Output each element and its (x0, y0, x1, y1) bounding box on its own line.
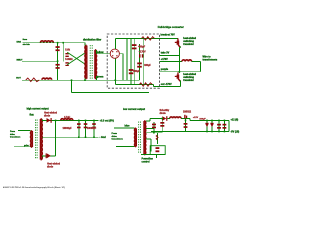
capacitor C4 (129, 69, 134, 74)
diode D1 (47, 118, 52, 123)
svg-text:break-at 70V: break-at 70V (161, 33, 176, 36)
capacitor C12 (223, 120, 227, 131)
svg-text:transistors: transistors (10, 135, 21, 138)
svg-text:5/8A: 5/8A (17, 41, 22, 44)
svg-text:Heat-sinked: Heat-sinked (44, 112, 58, 115)
svg-text:+12V: +12V (193, 117, 199, 119)
svg-text:green: green (97, 75, 104, 78)
capacitor C6 (84, 120, 88, 137)
wire gnd rail (42, 136, 98, 138)
wire neutral input (22, 60, 58, 62)
wire top rail right (167, 119, 229, 132)
wire mid 1 (160, 55, 180, 57)
wire T3 primary bottom (14, 146, 31, 148)
wire to L3 (160, 61, 183, 63)
wire box vertical 1b (130, 38, 132, 84)
label heat-sinked diode bottom (47, 163, 61, 169)
wire hot input top (23, 42, 85, 44)
svg-text:heat-sinked: heat-sinked (183, 37, 196, 40)
transformer T3 primary (31, 131, 33, 147)
capacitor C13 (184, 119, 188, 132)
wire T1 secondary bottom (96, 76, 98, 80)
junction dots (55, 42, 225, 138)
wire L3 loop (160, 62, 201, 72)
wire vertical to ground rail (71, 80, 73, 92)
svg-text:Heat-sinked: Heat-sinked (47, 163, 61, 166)
svg-text:460µF: 460µF (144, 64, 151, 67)
transformer T1 primary (86, 46, 88, 79)
label from drive transistors A (10, 131, 21, 138)
label Q2 (183, 73, 196, 82)
inductor L5 (170, 117, 181, 119)
inductor L1 (41, 41, 54, 43)
wire box vertical 1 (126, 38, 128, 80)
diode D4 vertical (184, 115, 187, 119)
resistor R3 (156, 135, 158, 140)
wire box vertical 2 (133, 38, 135, 84)
svg-text:flux: flux (30, 113, 35, 116)
wire T2 taps (141, 129, 165, 155)
diode D2 (46, 153, 51, 158)
zener Z1 (205, 120, 208, 131)
capacitor CX2 (56, 64, 60, 69)
wire lower rail right (151, 131, 229, 133)
wire vertical x63 (62, 43, 64, 62)
inductor L2 (42, 78, 52, 80)
inductor L3 (182, 60, 192, 62)
svg-text:+170V: +170V (139, 51, 146, 54)
svg-text:10000µF: 10000µF (87, 128, 97, 130)
wire bottom diode (42, 120, 55, 157)
wire T2 sec top to rail (146, 119, 162, 122)
wire T2 primary bottom (116, 145, 135, 147)
bridge rectifier B1 (110, 49, 119, 58)
inductor L4 (61, 119, 73, 121)
capacitor CY2 (65, 62, 68, 66)
transistor Q2 (175, 72, 181, 81)
wire T1 primary stubs (84, 43, 86, 80)
svg-text:5.6k: 5.6k (65, 49, 70, 52)
svg-text:low current output: low current output (123, 108, 145, 111)
svg-text:From: From (112, 133, 118, 135)
svg-text:+12 (8): +12 (8) (231, 118, 239, 121)
transformer T3 secondary (39, 119, 41, 160)
capacitor CY1 (65, 53, 68, 57)
svg-text:purple: purple (161, 68, 169, 71)
zener Z2 (210, 120, 213, 131)
wire +3.3 rail (42, 119, 98, 120)
svg-text:460µF: 460µF (138, 46, 145, 49)
wire vertical cap string (57, 43, 59, 80)
svg-text:slo-blo: slo-blo (23, 44, 31, 46)
svg-text:heat-sinked: heat-sinked (183, 73, 196, 76)
svg-text:HOT: HOT (16, 78, 21, 80)
converter box dashed (107, 34, 159, 88)
transistor Q1 (175, 38, 181, 48)
wire stub below feedback box (156, 155, 158, 159)
transformer T1 secondary (94, 50, 96, 78)
transformer T3 core (35, 120, 37, 160)
resistor R1 (142, 37, 155, 40)
svg-text:distribution filter: distribution filter (83, 38, 101, 41)
transformer T2 core (139, 122, 141, 154)
feedback box (150, 146, 165, 155)
transformer T2 secondary (143, 121, 145, 155)
svg-text:drive: drive (112, 136, 118, 138)
label from drive transistors B (112, 133, 124, 141)
svg-text:prim: prim (24, 145, 29, 147)
label fuse note (17, 39, 31, 46)
label schottky diode (160, 109, 170, 115)
wire T3 primary top (18, 130, 31, 132)
wire bridge plus (115, 38, 159, 49)
svg-text:control: control (142, 161, 150, 164)
capacitor C5 (77, 120, 81, 137)
wire mid horizontal y83.3 (115, 85, 180, 87)
wire tap verticals (151, 119, 162, 152)
svg-text:diode: diode (44, 115, 51, 117)
svg-text:100µF: 100µF (199, 119, 206, 121)
capacitor C2 horizontal (139, 54, 143, 57)
svg-text:+3.3 out (5V): +3.3 out (5V) (100, 119, 114, 122)
capacitor C7 (92, 120, 96, 137)
transformer T2 primary (135, 128, 137, 146)
svg-text:4/26/07 2:53 PM f=1.20 /home/s: 4/26/07 2:53 PM f=1.20 /home/switchingsu… (3, 186, 65, 189)
label Q1 (183, 37, 196, 46)
capacitor C11 (217, 120, 221, 131)
capacitor C8 (152, 124, 156, 129)
svg-text:10000µF: 10000µF (63, 128, 73, 130)
label heat-sinked diode top (44, 112, 58, 118)
svg-text:diode: diode (47, 166, 54, 168)
svg-text:fuse: fuse (23, 39, 28, 41)
wire box vertical 4 (143, 38, 145, 84)
svg-text:Schottky: Schottky (160, 109, 170, 112)
svg-text:- Gnd: - Gnd (100, 136, 107, 139)
svg-text:-5V (15): -5V (15) (231, 131, 240, 134)
wire to Q1 (160, 37, 179, 39)
resistor R2 (139, 83, 152, 86)
svg-text:1N5822: 1N5822 (183, 111, 192, 113)
capacitor C10 (156, 147, 160, 152)
transformer T1 core (90, 45, 92, 79)
wire bridge minus (114, 58, 116, 84)
svg-text:switching: switching (183, 76, 194, 79)
wire T2 primary top (114, 127, 135, 129)
svg-text:460µF: 460µF (133, 70, 140, 73)
svg-text:5.6MΩ: 5.6MΩ (65, 58, 72, 61)
capacitor CX1 (56, 46, 60, 51)
svg-text:transformers: transformers (203, 59, 218, 62)
wire T1 to bridge (97, 50, 111, 54)
wire bottom rail (72, 92, 150, 94)
label wire to transformers (203, 56, 218, 62)
wire Q1 emitter down (179, 46, 180, 73)
wire box vertical 3 (139, 44, 141, 80)
capacitor C1 (132, 44, 137, 49)
wire bridge right out (119, 54, 123, 80)
svg-text:+170V: +170V (161, 58, 168, 61)
label feedback control (142, 158, 154, 164)
svg-text:transistors: transistors (112, 138, 124, 141)
svg-text:take 3V: take 3V (161, 51, 170, 54)
svg-text:diode: diode (160, 113, 167, 115)
wire hot lower input (22, 79, 140, 81)
svg-text:high current output: high current output (27, 108, 49, 111)
svg-text:out -170V: out -170V (161, 83, 172, 86)
svg-text:switching: switching (183, 40, 194, 43)
diode D3 (162, 116, 167, 121)
capacitor C3 (137, 63, 142, 68)
svg-text:blue: blue (125, 125, 131, 128)
wire crossing X (67, 52, 86, 64)
wire Q2 emitter (180, 81, 182, 87)
svg-text:transistor: transistor (183, 43, 194, 46)
svg-text:Full-bridge converter: Full-bridge converter (158, 25, 184, 29)
svg-text:transistor: transistor (183, 79, 194, 82)
fuse F1 (26, 78, 40, 82)
capacitor C9 (160, 122, 164, 127)
